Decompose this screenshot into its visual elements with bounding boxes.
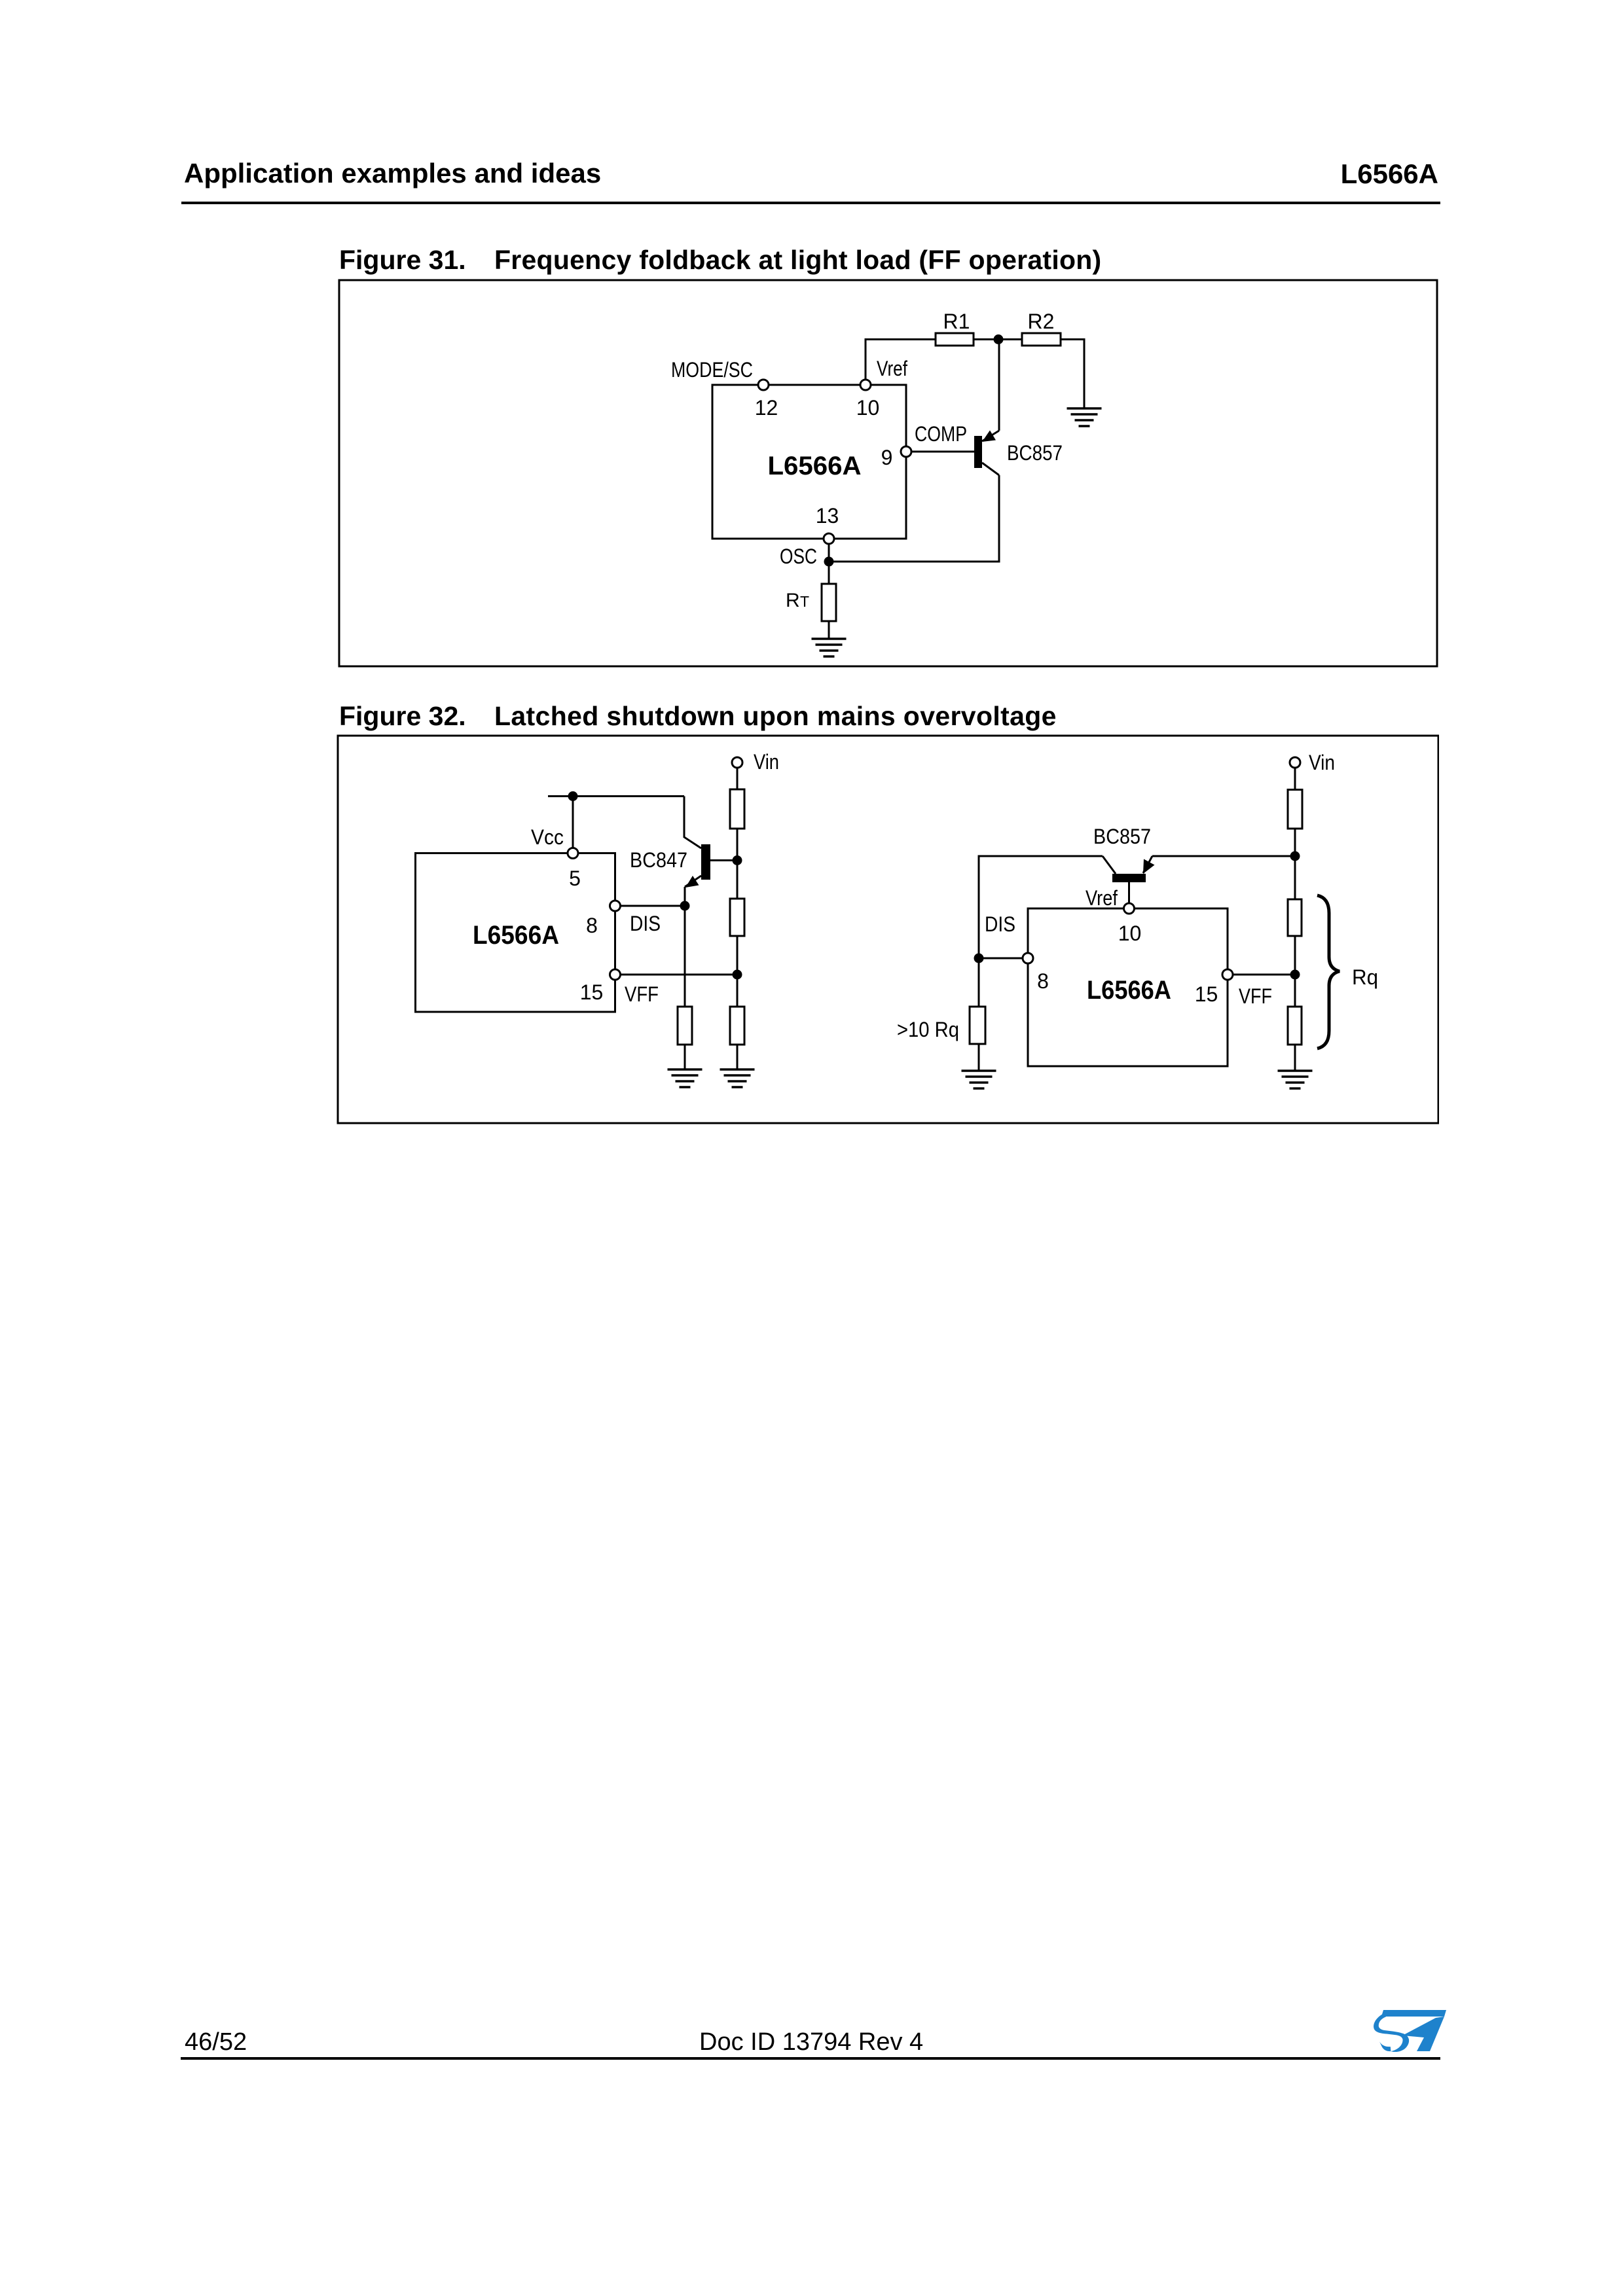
resistor (Vin top, right) <box>1288 790 1302 829</box>
FIGURE 32 SVG <box>337 734 1439 1124</box>
svg-text:>10 Rq: >10 Rq <box>897 1018 959 1041</box>
node VFF junction (right) <box>1290 970 1300 980</box>
svg-text:VFF: VFF <box>1239 984 1272 1008</box>
ground (DIS resistor) <box>668 1069 702 1087</box>
wire divider 2 to VFF node <box>737 936 739 1007</box>
figure 32 frame <box>338 736 1438 1123</box>
caption figure 32 <box>339 703 466 730</box>
IC U3 L6566A <box>1028 908 1228 1066</box>
svg-text:15: 15 <box>580 980 604 1004</box>
terminal Vin (right circuit) <box>1290 751 1335 774</box>
svg-text:15: 15 <box>1195 982 1218 1006</box>
ground (>10Rq) <box>962 1071 996 1088</box>
svg-text:Rq: Rq <box>1352 965 1378 989</box>
svg-text:BC857: BC857 <box>1093 825 1151 848</box>
wire Vin to top resistor <box>1294 768 1296 790</box>
svg-text:8: 8 <box>586 914 598 937</box>
svg-text:Vin: Vin <box>1309 751 1335 774</box>
pin 12 MODE/SC <box>671 358 778 420</box>
wire base of Q1 to pin 9 <box>911 451 974 453</box>
caption figure 31 <box>339 247 466 274</box>
svg-text:9: 9 <box>881 446 893 469</box>
wire Q1 emitter to node A <box>998 340 1000 431</box>
wire R2 to ground <box>1061 340 1084 409</box>
pin 8 DIS <box>586 901 661 937</box>
svg-text:R: R <box>786 590 800 611</box>
wire Q2 emitter to DIS node <box>684 887 686 906</box>
ground (right divider) <box>1278 1071 1313 1088</box>
svg-text:COMP: COMP <box>915 422 967 446</box>
figure 31 frame <box>339 280 1437 666</box>
svg-text:Vref: Vref <box>877 357 907 380</box>
svg-text:12: 12 <box>755 396 778 420</box>
pin 13 OSC <box>780 504 839 568</box>
resistor R2 <box>1022 310 1061 346</box>
pin 15 VFF <box>580 969 659 1006</box>
logo T stem <box>1402 2017 1444 2051</box>
wire pin10 to R1 <box>866 340 936 380</box>
logo top bar <box>1381 2010 1446 2017</box>
svg-text:MODE/SC: MODE/SC <box>671 358 753 382</box>
footer page number <box>185 2030 247 2054</box>
wire collector rail (left) <box>979 856 1103 958</box>
resistor R1 <box>936 310 974 346</box>
svg-text:DIS: DIS <box>985 912 1015 936</box>
svg-text:Vcc: Vcc <box>531 825 564 849</box>
logo S stroke <box>1372 2011 1410 2054</box>
wire resistor to ground <box>684 1045 686 1069</box>
transistor Q2 BC847 <box>630 844 710 888</box>
footer rule <box>181 2057 1440 2060</box>
transistor Q1 BC857 <box>974 431 1063 476</box>
wire divider 1 to base node <box>737 829 739 899</box>
svg-text:10: 10 <box>856 396 880 420</box>
wire Q1 collector to OSC node <box>829 475 999 562</box>
svg-text:8: 8 <box>1037 969 1049 993</box>
wire DIS node to resistor <box>684 906 686 1007</box>
svg-text:13: 13 <box>816 504 839 528</box>
svg-text:L6566A: L6566A <box>473 921 559 950</box>
header: section title <box>184 160 601 187</box>
svg-text:5: 5 <box>569 867 581 890</box>
svg-text:L6566A: L6566A <box>768 452 862 480</box>
svg-text:R1: R1 <box>943 310 970 333</box>
svg-text:VFF: VFF <box>625 982 659 1006</box>
footer doc id <box>699 2030 923 2054</box>
IC U2 L6566A <box>416 853 615 1013</box>
wire DIS node to pin 8 <box>979 958 1023 960</box>
wire RT to ground <box>828 621 830 639</box>
wire Rq upper to VFF node <box>1294 936 1296 1007</box>
header: part number <box>1341 160 1438 188</box>
wire pin15 to divider <box>621 974 738 976</box>
svg-text:R2: R2 <box>1028 310 1055 333</box>
FIGURE 31 SVG <box>338 279 1438 668</box>
node DIS junction <box>680 901 690 911</box>
node A junction <box>994 334 1004 344</box>
resistor RT <box>786 584 836 621</box>
wire >10Rq to ground <box>978 1044 980 1071</box>
terminal Vin (left circuit) <box>732 750 779 774</box>
svg-text:OSC: OSC <box>780 545 817 568</box>
pin 8 DIS (right circuit) <box>985 912 1049 993</box>
resistor divider 2 (left) <box>730 899 744 936</box>
wire top resistor to emitter node <box>1294 829 1296 899</box>
resistor >10 Rq <box>897 1007 985 1044</box>
svg-text:Vref: Vref <box>1085 886 1118 910</box>
resistor divider 1 (left) <box>730 789 744 829</box>
ground (R2) <box>1067 408 1102 426</box>
IC U1 L6566A <box>712 385 906 539</box>
wire pin15 to Rq node <box>1233 974 1294 976</box>
wire Q2 base to divider node <box>710 859 737 861</box>
wire pin5 to rail <box>572 797 574 848</box>
wire Vcc rail <box>548 795 684 797</box>
pin 10 Vref (right circuit) <box>1085 886 1141 945</box>
node base junction <box>733 855 742 865</box>
pin 10 Vref <box>856 357 907 420</box>
wire emitter rail (right) <box>1152 855 1294 857</box>
wire divider 3 to ground <box>737 1045 739 1069</box>
node DIS junction (right circuit) <box>974 954 984 963</box>
header rule <box>181 202 1440 204</box>
svg-text:Vin: Vin <box>754 750 779 774</box>
pin 15 VFF (right circuit) <box>1195 969 1272 1008</box>
brace Rq <box>1317 895 1378 1049</box>
ground (RT) <box>812 639 847 656</box>
node emitter junction (right) <box>1290 852 1300 861</box>
wire pin8 to DIS node <box>621 905 685 907</box>
svg-text:DIS: DIS <box>630 912 661 935</box>
node OSC junction <box>824 557 834 567</box>
wire Vin to divider resistor 1 <box>737 768 739 789</box>
svg-text:T: T <box>800 593 809 610</box>
svg-text:L6566A: L6566A <box>1087 976 1171 1005</box>
transistor Q3 BC857 <box>1093 825 1155 903</box>
wire rail corner to Q2 collector <box>684 797 701 849</box>
resistor Rq upper <box>1288 899 1302 936</box>
svg-text:BC847: BC847 <box>630 848 687 872</box>
wire Rq lower to ground <box>1294 1045 1296 1071</box>
pin 5 Vcc <box>531 825 581 890</box>
svg-text:10: 10 <box>1118 922 1142 945</box>
resistor divider 3 (left) <box>730 1007 744 1045</box>
wire R1 to node A <box>974 338 1022 340</box>
ground (left divider) <box>720 1069 755 1087</box>
wire DIS node to >10Rq resistor <box>978 958 980 1007</box>
ST logo <box>1372 2008 1448 2055</box>
resistor Rq lower <box>1288 1007 1302 1045</box>
node Vcc junction <box>568 791 578 801</box>
resistor (DIS pull-down) <box>678 1007 692 1045</box>
wire pin13 to RT <box>828 544 830 584</box>
svg-text:BC857: BC857 <box>1007 441 1063 465</box>
pin 9 COMP <box>881 422 967 469</box>
node VFF junction <box>733 970 742 980</box>
